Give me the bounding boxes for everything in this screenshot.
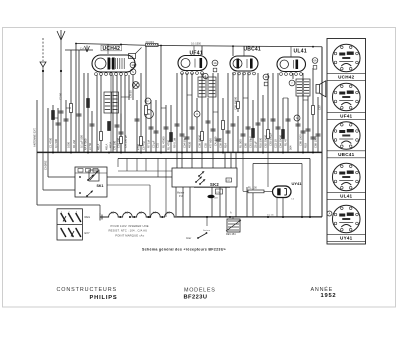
svg-text:MODELES: MODELES xyxy=(184,287,216,293)
svg-text:1000: 1000 xyxy=(67,142,71,148)
svg-text:6A: 6A xyxy=(313,59,316,63)
svg-text:C7 50: C7 50 xyxy=(88,142,92,150)
svg-text:Secteur: Secteur xyxy=(203,229,210,232)
svg-text:C63 500µF: C63 500µF xyxy=(269,132,273,146)
svg-text:1952: 1952 xyxy=(321,293,337,299)
svg-text:C68 1500: C68 1500 xyxy=(314,136,318,148)
svg-text:CR 100: CR 100 xyxy=(113,140,117,150)
svg-text:0,1 500: 0,1 500 xyxy=(54,139,58,148)
svg-text:C.A.: C.A. xyxy=(80,48,85,51)
svg-text:C61 50µF: C61 50µF xyxy=(249,136,253,148)
svg-text:UL41: UL41 xyxy=(340,194,352,199)
svg-text:C54 50µF: C54 50µF xyxy=(183,136,187,148)
svg-text:L4: L4 xyxy=(153,211,156,215)
svg-text:REV 254: REV 254 xyxy=(226,233,236,236)
svg-text:C31: C31 xyxy=(156,143,160,148)
svg-text:R1 2M: R1 2M xyxy=(72,139,76,148)
svg-text:UY41: UY41 xyxy=(340,236,353,241)
svg-text:UY41: UY41 xyxy=(292,181,303,186)
svg-text:ANTENNE EXT.: ANTENNE EXT. xyxy=(33,127,37,147)
svg-text:C64 25000: C64 25000 xyxy=(279,134,283,148)
svg-text:R19: R19 xyxy=(304,143,308,148)
svg-text:0,1 µF 500: 0,1 µF 500 xyxy=(80,135,84,148)
svg-text:4A 47000: 4A 47000 xyxy=(84,138,88,150)
svg-text:P.U.: P.U. xyxy=(179,196,184,198)
svg-text:E: E xyxy=(148,112,150,116)
svg-text:L1: L1 xyxy=(125,211,128,215)
svg-text:PHILIPS: PHILIPS xyxy=(90,295,118,301)
svg-text:C23 10: C23 10 xyxy=(274,139,278,148)
svg-text:RL 500: RL 500 xyxy=(239,139,243,148)
svg-text:C55: C55 xyxy=(204,143,208,148)
svg-text:L5: L5 xyxy=(167,211,170,215)
svg-text:UBC41: UBC41 xyxy=(244,47,261,53)
svg-text:25 µF: 25 µF xyxy=(254,141,258,148)
svg-text:1A: 1A xyxy=(131,63,134,67)
svg-text:1A: 1A xyxy=(213,61,216,65)
svg-text:Moteur: Moteur xyxy=(177,192,184,195)
svg-text:C66 1500: C66 1500 xyxy=(299,134,303,146)
svg-text:EXY: EXY xyxy=(85,231,90,235)
svg-text:C56 10000: C56 10000 xyxy=(198,134,202,148)
svg-text:CONSTRUCTEURS: CONSTRUCTEURS xyxy=(57,287,118,293)
svg-text:UL41: UL41 xyxy=(294,49,307,55)
svg-text:RL 47: RL 47 xyxy=(284,138,288,146)
svg-text:14, 1m: 14, 1m xyxy=(267,214,274,216)
svg-text:RESIST. NTC : 104 , C/A AU: RESIST. NTC : 104 , C/A AU xyxy=(109,229,148,233)
svg-text:M: M xyxy=(265,75,267,79)
svg-text:ANNÉE: ANNÉE xyxy=(311,286,334,293)
svg-text:SK2: SK2 xyxy=(210,182,219,187)
svg-text:C5 µF: C5 µF xyxy=(152,140,156,148)
svg-text:491A: 491A xyxy=(97,144,101,150)
svg-text:BF223U: BF223U xyxy=(184,294,208,300)
svg-text:POINT MARQUE «A»: POINT MARQUE «A» xyxy=(115,233,144,237)
svg-text:POUR 110V. INSERER UNE: POUR 110V. INSERER UNE xyxy=(111,224,149,228)
svg-text:UBC41: UBC41 xyxy=(338,152,355,157)
svg-text:R16 500: R16 500 xyxy=(259,137,263,148)
svg-text:R9 0,1M: R9 0,1M xyxy=(173,137,177,148)
svg-text:C2 50: C2 50 xyxy=(59,92,63,100)
svg-text:C4, 100: C4, 100 xyxy=(214,136,218,146)
svg-text:491A: 491A xyxy=(105,144,109,150)
svg-text:CADRE: CADRE xyxy=(44,160,48,170)
svg-text:UF41: UF41 xyxy=(340,114,352,119)
svg-text:C62 25000: C62 25000 xyxy=(264,134,268,148)
svg-text:C60: C60 xyxy=(244,143,248,148)
svg-text:477 600: 477 600 xyxy=(209,138,213,148)
svg-text:0,1-1500: 0,1-1500 xyxy=(191,43,201,46)
svg-text:C1 4700: C1 4700 xyxy=(49,137,53,148)
svg-text:4700: 4700 xyxy=(137,144,141,150)
svg-text:493A: 493A xyxy=(109,142,113,148)
svg-text:C58 300: C58 300 xyxy=(219,137,223,148)
svg-text:C10 100: C10 100 xyxy=(117,137,121,148)
svg-text:C17: C17 xyxy=(227,180,230,182)
svg-text:L5: L5 xyxy=(111,211,114,215)
svg-text:R7 1M: R7 1M xyxy=(147,139,151,148)
svg-text:S: S xyxy=(132,70,134,74)
svg-text:RL, 100: RL, 100 xyxy=(248,186,257,189)
svg-text:UCH42: UCH42 xyxy=(103,46,121,52)
svg-text:RL 47000: RL 47000 xyxy=(162,136,166,148)
svg-text:REG: REG xyxy=(85,215,91,219)
svg-text:C58 30000: C58 30000 xyxy=(234,96,238,110)
svg-text:Inter: Inter xyxy=(186,236,191,240)
svg-text:SK1: SK1 xyxy=(97,184,104,188)
svg-text:RL 4700: RL 4700 xyxy=(167,139,171,150)
svg-text:C8 47µ: C8 47µ xyxy=(142,141,146,150)
svg-text:A: A xyxy=(329,212,331,216)
svg-text:CR 50: CR 50 xyxy=(129,90,133,98)
svg-text:Schéma général des «récepteurs: Schéma général des «récepteurs BF223U» xyxy=(142,248,226,252)
svg-text:504: 504 xyxy=(289,145,293,150)
svg-text:CR 500 µA: CR 500 µA xyxy=(124,135,128,148)
svg-text:C67: C67 xyxy=(318,105,322,110)
svg-text:L2: L2 xyxy=(139,211,142,215)
svg-text:O: O xyxy=(196,112,198,116)
svg-text:493B: 493B xyxy=(188,142,192,148)
svg-text:R14: R14 xyxy=(224,143,228,148)
svg-text:UCH42: UCH42 xyxy=(338,75,355,80)
